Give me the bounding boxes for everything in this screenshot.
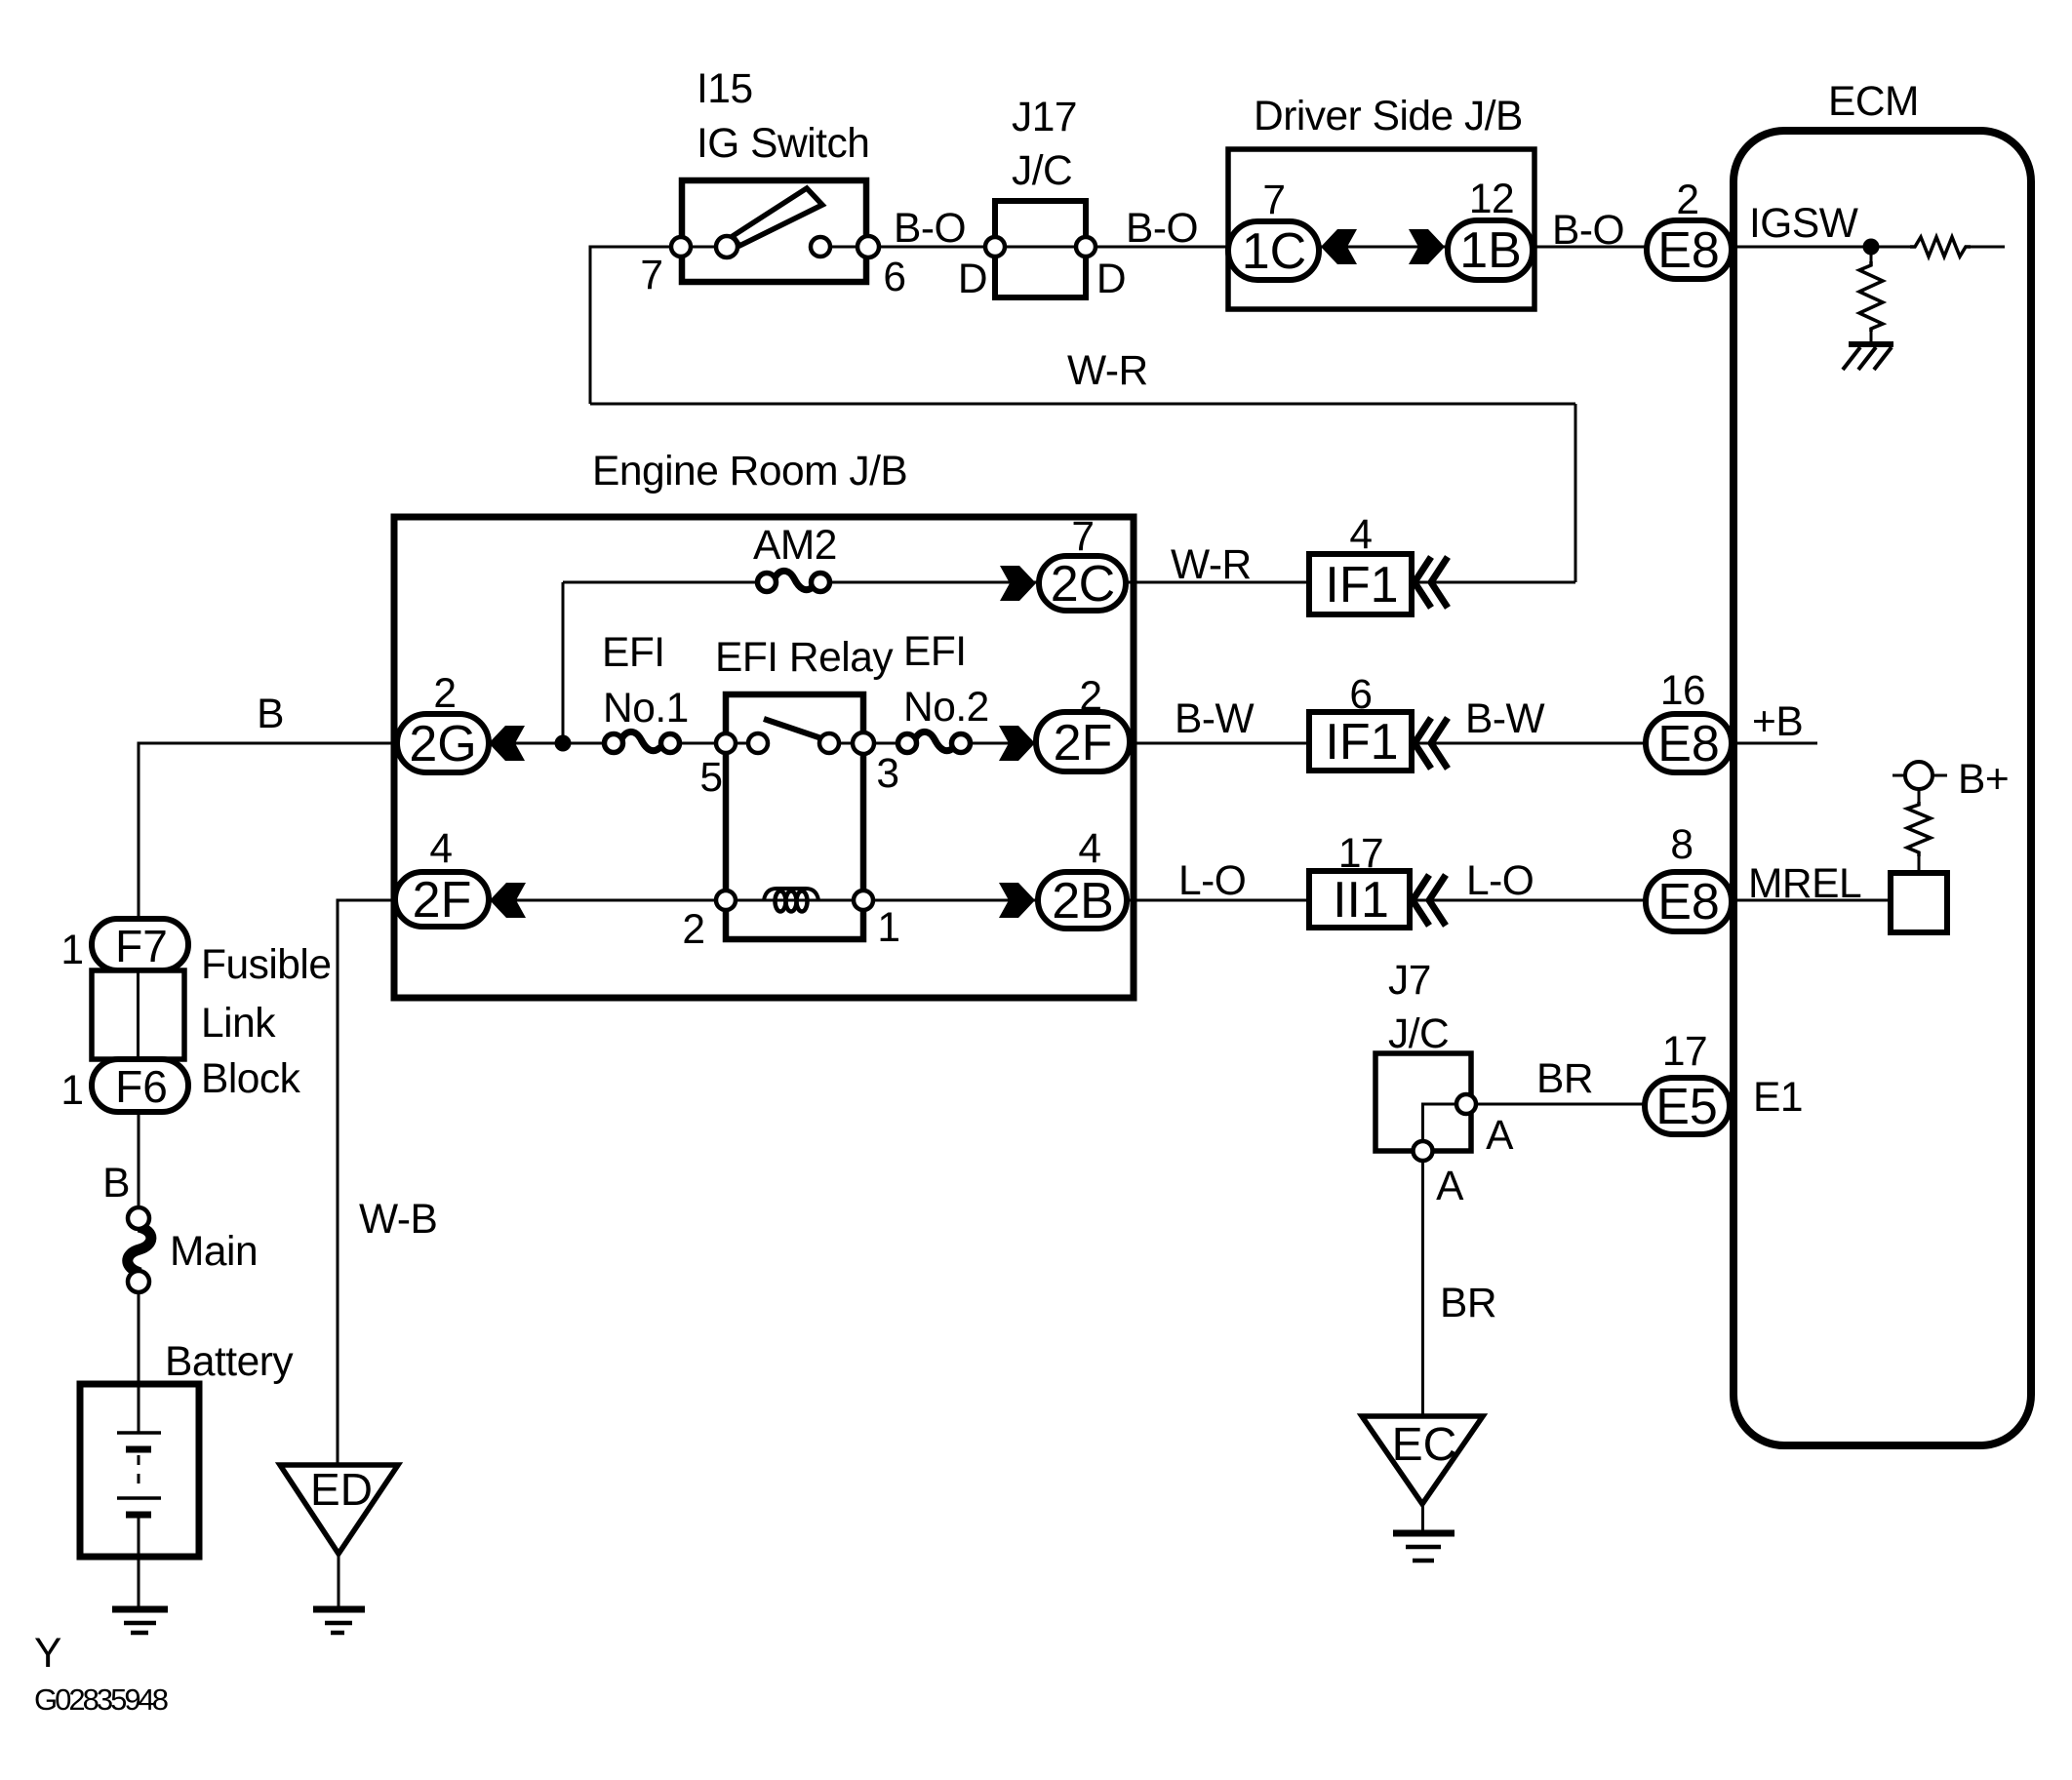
arrow into 1C (left)	[1321, 229, 1357, 264]
svg-text:IGSW: IGSW	[1749, 201, 1858, 247]
fuse EFI No.2 wave	[914, 732, 954, 750]
ground battery earth	[112, 1609, 168, 1633]
relay coil loops	[776, 891, 808, 912]
connector IF1 chevrons (W-R row)	[1415, 557, 1448, 608]
svg-text:EFI Relay: EFI Relay	[715, 635, 894, 681]
terminal circle IG lever pivot	[716, 236, 737, 257]
Driver Side J/B box	[1228, 149, 1534, 309]
terminal circle relay pin 2	[716, 890, 736, 910]
svg-text:2: 2	[1676, 178, 1698, 223]
arrow into 2B (right)	[999, 883, 1035, 918]
svg-text:IF1: IF1	[1325, 557, 1398, 613]
junction connector J7 box	[1375, 1053, 1471, 1151]
svg-text:4: 4	[1349, 512, 1372, 558]
Battery box	[80, 1384, 199, 1557]
connector oval E8 pin 2 (IGSW)	[1647, 220, 1732, 279]
svg-text:16: 16	[1660, 668, 1705, 714]
ground ED earth	[313, 1609, 365, 1633]
svg-text:B+: B+	[1958, 757, 2009, 803]
wire B+ resistor to MREL square	[1918, 856, 1921, 873]
svg-text:EC: EC	[1392, 1419, 1457, 1471]
svg-text:2: 2	[1079, 674, 1101, 720]
wire AM2 row to 2C and out to IF1	[820, 581, 1126, 584]
svg-text:1: 1	[60, 928, 83, 973]
wire ECM IGSW junction to vertical resistor	[1870, 247, 1873, 261]
IG switch lever	[733, 188, 822, 246]
wire 2C to IF1 top connector	[1126, 581, 1447, 584]
wire EC triangle apex to earth ground	[1421, 1504, 1424, 1533]
MREL load square	[1891, 873, 1947, 932]
svg-text:No.2: No.2	[903, 685, 989, 731]
wire B-W row: relay pin 3 to fuse No.2	[829, 742, 907, 745]
connector oval E8 pin 16 (+B)	[1646, 714, 1732, 772]
terminal circle J17 pin D left	[985, 237, 1005, 257]
svg-text:F7: F7	[115, 921, 168, 971]
svg-text:II1: II1	[1333, 872, 1389, 929]
terminal circle relay pin 3	[853, 732, 874, 754]
svg-text:A: A	[1436, 1164, 1464, 1209]
wire B+ terminal tick	[1893, 774, 1947, 777]
B+ terminal circle	[1905, 762, 1933, 789]
svg-text:BR: BR	[1536, 1056, 1593, 1102]
terminal circle relay pin 5	[716, 733, 736, 753]
svg-text:B: B	[257, 692, 284, 737]
svg-text:Block: Block	[201, 1056, 301, 1102]
svg-text:Fusible: Fusible	[201, 942, 332, 988]
svg-text:2F: 2F	[413, 872, 472, 929]
connector IF1 box (W-R row, pin 4)	[1309, 554, 1412, 614]
svg-text:2: 2	[682, 907, 704, 953]
svg-text:J/C: J/C	[1012, 148, 1072, 194]
svg-text:B-O: B-O	[1552, 208, 1624, 254]
IG Switch box I15	[682, 180, 866, 282]
svg-text:E8: E8	[1657, 874, 1720, 930]
EFI Relay box	[726, 694, 863, 939]
wire W-R: left vertical drop from IG pin7 corner	[589, 246, 592, 405]
fusible link oval F7	[92, 919, 188, 970]
svg-text:6: 6	[1349, 672, 1372, 718]
terminal circle relay pin 1	[854, 890, 873, 910]
svg-text:5: 5	[699, 755, 722, 801]
connector oval 2B (pin 4, Engine JB right)	[1038, 872, 1127, 929]
wire fusible link to Main fuse	[138, 1110, 140, 1209]
svg-text:L-O: L-O	[1178, 858, 1246, 904]
svg-text:E5: E5	[1655, 1079, 1718, 1135]
chassis ground IGSW	[1843, 344, 1893, 370]
battery plate long top	[117, 1431, 161, 1435]
terminal circle J7 pin A right	[1456, 1094, 1476, 1114]
junction dot B-W row	[555, 735, 572, 752]
svg-text:EFI: EFI	[602, 630, 665, 676]
svg-text:ECM: ECM	[1828, 79, 1919, 125]
wire B vertical down to fusible link F7	[138, 742, 140, 923]
svg-text:7: 7	[1262, 178, 1285, 223]
svg-text:2: 2	[433, 671, 456, 717]
svg-text:W-R: W-R	[1067, 348, 1148, 394]
svg-text:B-O: B-O	[1126, 206, 1198, 252]
wire ECM vertical resistor to chassis ground	[1870, 332, 1873, 343]
svg-text:BR: BR	[1440, 1281, 1496, 1326]
svg-text:3: 3	[876, 751, 898, 797]
terminal circle relay contact right	[819, 733, 839, 753]
ED ground triangle	[280, 1465, 398, 1554]
terminal circle IG pin 7	[671, 237, 691, 257]
battery dashed center link	[138, 1455, 140, 1492]
svg-text:2F: 2F	[1054, 715, 1113, 771]
fusible link oval F6	[92, 1059, 188, 1112]
svg-text:AM2: AM2	[753, 523, 837, 569]
svg-text:J17: J17	[1012, 95, 1077, 140]
EC ground triangle	[1362, 1416, 1483, 1504]
battery plate long bottom	[117, 1496, 161, 1500]
terminal circle J7 pin A bottom	[1414, 1141, 1433, 1161]
svg-text:L-O: L-O	[1466, 858, 1534, 904]
terminal circle IG contact	[811, 237, 830, 257]
svg-text:J7: J7	[1388, 958, 1431, 1004]
wire W-R: long horizontal	[590, 403, 1575, 406]
fuse EFI No.1 wave	[620, 732, 660, 750]
wire B-W row: fuse No.1 to relay pin 5	[670, 742, 758, 745]
wire B row from Engine JB left to corner	[139, 742, 614, 745]
svg-text:B-O: B-O	[894, 206, 966, 252]
connector oval 2F left (pin 4, Engine JB left)	[395, 872, 489, 927]
svg-text:Battery: Battery	[165, 1339, 294, 1385]
wire ED triangle apex to earth ground	[338, 1554, 340, 1609]
wire W-R: horizontal into IF1 chevron	[1447, 581, 1575, 584]
svg-text:I15: I15	[697, 66, 753, 112]
wire top row B-O segment (IG switch pin7 to left corner)	[590, 246, 727, 249]
svg-text:4: 4	[1078, 826, 1100, 872]
wire ECM IGSW resistor right stub	[1971, 246, 2005, 249]
connector oval 2G (pin 2, Engine JB left)	[397, 714, 489, 772]
fuse AM2 wave	[774, 571, 814, 589]
ECM outline	[1733, 131, 2031, 1445]
connector oval 2F right (pin 2, Engine JB right)	[1036, 712, 1130, 771]
svg-text:W-R: W-R	[1171, 542, 1252, 588]
connector IF1 chevrons (B-W row)	[1415, 718, 1448, 769]
svg-text:Driver Side J/B: Driver Side J/B	[1254, 94, 1523, 139]
relay coil dome	[764, 889, 818, 900]
svg-text:12: 12	[1469, 177, 1514, 222]
svg-text:Link: Link	[201, 1001, 276, 1047]
svg-text:Main: Main	[170, 1229, 258, 1275]
connector II1 chevrons	[1413, 875, 1446, 926]
svg-text:1C: 1C	[1242, 223, 1306, 280]
terminal circle relay contact left	[748, 733, 768, 753]
connector oval E5 pin 17 (E1)	[1645, 1078, 1730, 1134]
svg-text:IF1: IF1	[1325, 714, 1398, 771]
connector IF1 box (B-W row, pin 6)	[1309, 712, 1412, 771]
Main fusible link squiggle	[128, 1227, 151, 1273]
wire W-B vertical down to ED ground triangle	[337, 899, 339, 1466]
svg-text:E8: E8	[1657, 716, 1720, 772]
svg-text:E1: E1	[1753, 1075, 1803, 1121]
svg-text:IG Switch: IG Switch	[697, 121, 869, 167]
arrow into 2G (left)	[489, 726, 525, 761]
terminal circle IG pin 6	[857, 236, 879, 257]
connector oval 2C (pin 7, Engine JB right)	[1039, 556, 1126, 611]
fuse AM2 circles	[758, 574, 777, 592]
svg-text:Y: Y	[34, 1631, 61, 1677]
svg-text:G02835948: G02835948	[34, 1682, 168, 1717]
wire battery positive plate lead	[138, 1384, 140, 1433]
terminal circle J17 pin D right	[1076, 237, 1096, 257]
svg-text:6: 6	[883, 255, 905, 300]
svg-text:2B: 2B	[1052, 873, 1114, 930]
wire AM2 row inside Engine Room J/B (left of fuse)	[563, 581, 767, 584]
svg-text:W-B: W-B	[359, 1197, 437, 1243]
resistor B+ vertical	[1907, 802, 1931, 856]
svg-text:1B: 1B	[1459, 222, 1522, 279]
svg-text:D: D	[1096, 257, 1126, 302]
svg-text:B-W: B-W	[1175, 696, 1255, 742]
wire BR from J7 to E5	[1466, 1103, 1645, 1106]
arrow into 2C (right)	[1000, 566, 1036, 601]
svg-text:J/C: J/C	[1388, 1011, 1449, 1057]
battery plate short top	[126, 1446, 151, 1453]
wire top row B-O from IG pin6 through J17 and Driver JB to ECM IGSW	[820, 246, 1910, 249]
svg-text:No.1: No.1	[603, 686, 689, 732]
svg-text:1: 1	[877, 905, 899, 951]
svg-text:E8: E8	[1657, 222, 1720, 279]
Main fusible link circle top	[128, 1207, 149, 1229]
Main fusible link circle bottom	[128, 1271, 149, 1292]
wire battery negative lead to ground	[138, 1515, 140, 1607]
svg-text:EFI: EFI	[903, 629, 967, 675]
svg-text:ED: ED	[310, 1464, 373, 1515]
fusible link block divider	[137, 970, 139, 1059]
svg-text:MREL: MREL	[1748, 861, 1861, 907]
wire B-W row: fuse No.2 to 2F, IF1, E8 and ECM +B stub	[961, 742, 1817, 745]
svg-text:Engine Room J/B: Engine Room J/B	[592, 449, 907, 494]
relay switch blade	[764, 719, 824, 739]
arrow into 1B (right)	[1409, 229, 1445, 264]
Engine Room J/B box	[394, 517, 1134, 998]
battery plate short bottom	[126, 1512, 151, 1519]
svg-text:D: D	[958, 257, 987, 302]
svg-text:2C: 2C	[1051, 556, 1115, 613]
wire W-R: right vertical down to IF1 row	[1574, 404, 1577, 582]
svg-text:B: B	[102, 1161, 130, 1206]
fuse EFI No.1 circles	[605, 734, 623, 753]
resistor IGSW horizontal	[1910, 237, 1971, 257]
wire W-B/L-O row: from W-B corner through relay coil to 2B, II1, E8, MREL square	[338, 899, 1891, 902]
svg-text:A: A	[1486, 1113, 1514, 1159]
svg-text:F6: F6	[115, 1061, 168, 1112]
wire vertical from AM2 row down to B-W row junction	[562, 582, 565, 743]
svg-text:4: 4	[429, 826, 452, 872]
connector oval E8 pin 8 (MREL)	[1646, 872, 1732, 931]
svg-text:7: 7	[1071, 514, 1094, 560]
junction connector J17 box	[995, 201, 1086, 297]
svg-text:B-W: B-W	[1465, 696, 1545, 742]
junction dot IGSW	[1863, 239, 1880, 256]
svg-text:8: 8	[1670, 822, 1693, 868]
svg-text:17: 17	[1338, 831, 1383, 877]
arrow into 2F left (left)	[490, 883, 526, 918]
resistor IGSW vertical	[1859, 261, 1883, 332]
connector II1 box (L-O row, pin 17)	[1309, 871, 1410, 928]
svg-text:17: 17	[1662, 1029, 1707, 1075]
wire B+ circle to resistor	[1918, 789, 1921, 802]
fusible link block rect	[92, 970, 184, 1059]
svg-text:2G: 2G	[409, 716, 476, 772]
arrow into 2F right (right)	[999, 726, 1035, 761]
wire BR vertical from J7 pin A down to EC triangle	[1421, 1151, 1424, 1416]
connector oval 1B (pin 12, Driver JB)	[1448, 220, 1533, 280]
wire Main fuse to Battery	[138, 1289, 140, 1384]
connector oval 1C (pin 7, Driver JB)	[1228, 221, 1319, 280]
wire J7 junction connector inner L	[1423, 1104, 1467, 1151]
svg-text:1: 1	[60, 1068, 83, 1114]
svg-text:7: 7	[640, 253, 662, 298]
svg-text:+B: +B	[1752, 699, 1803, 745]
fuse EFI No.2 circles	[898, 734, 917, 753]
ground EC earth	[1393, 1533, 1454, 1561]
